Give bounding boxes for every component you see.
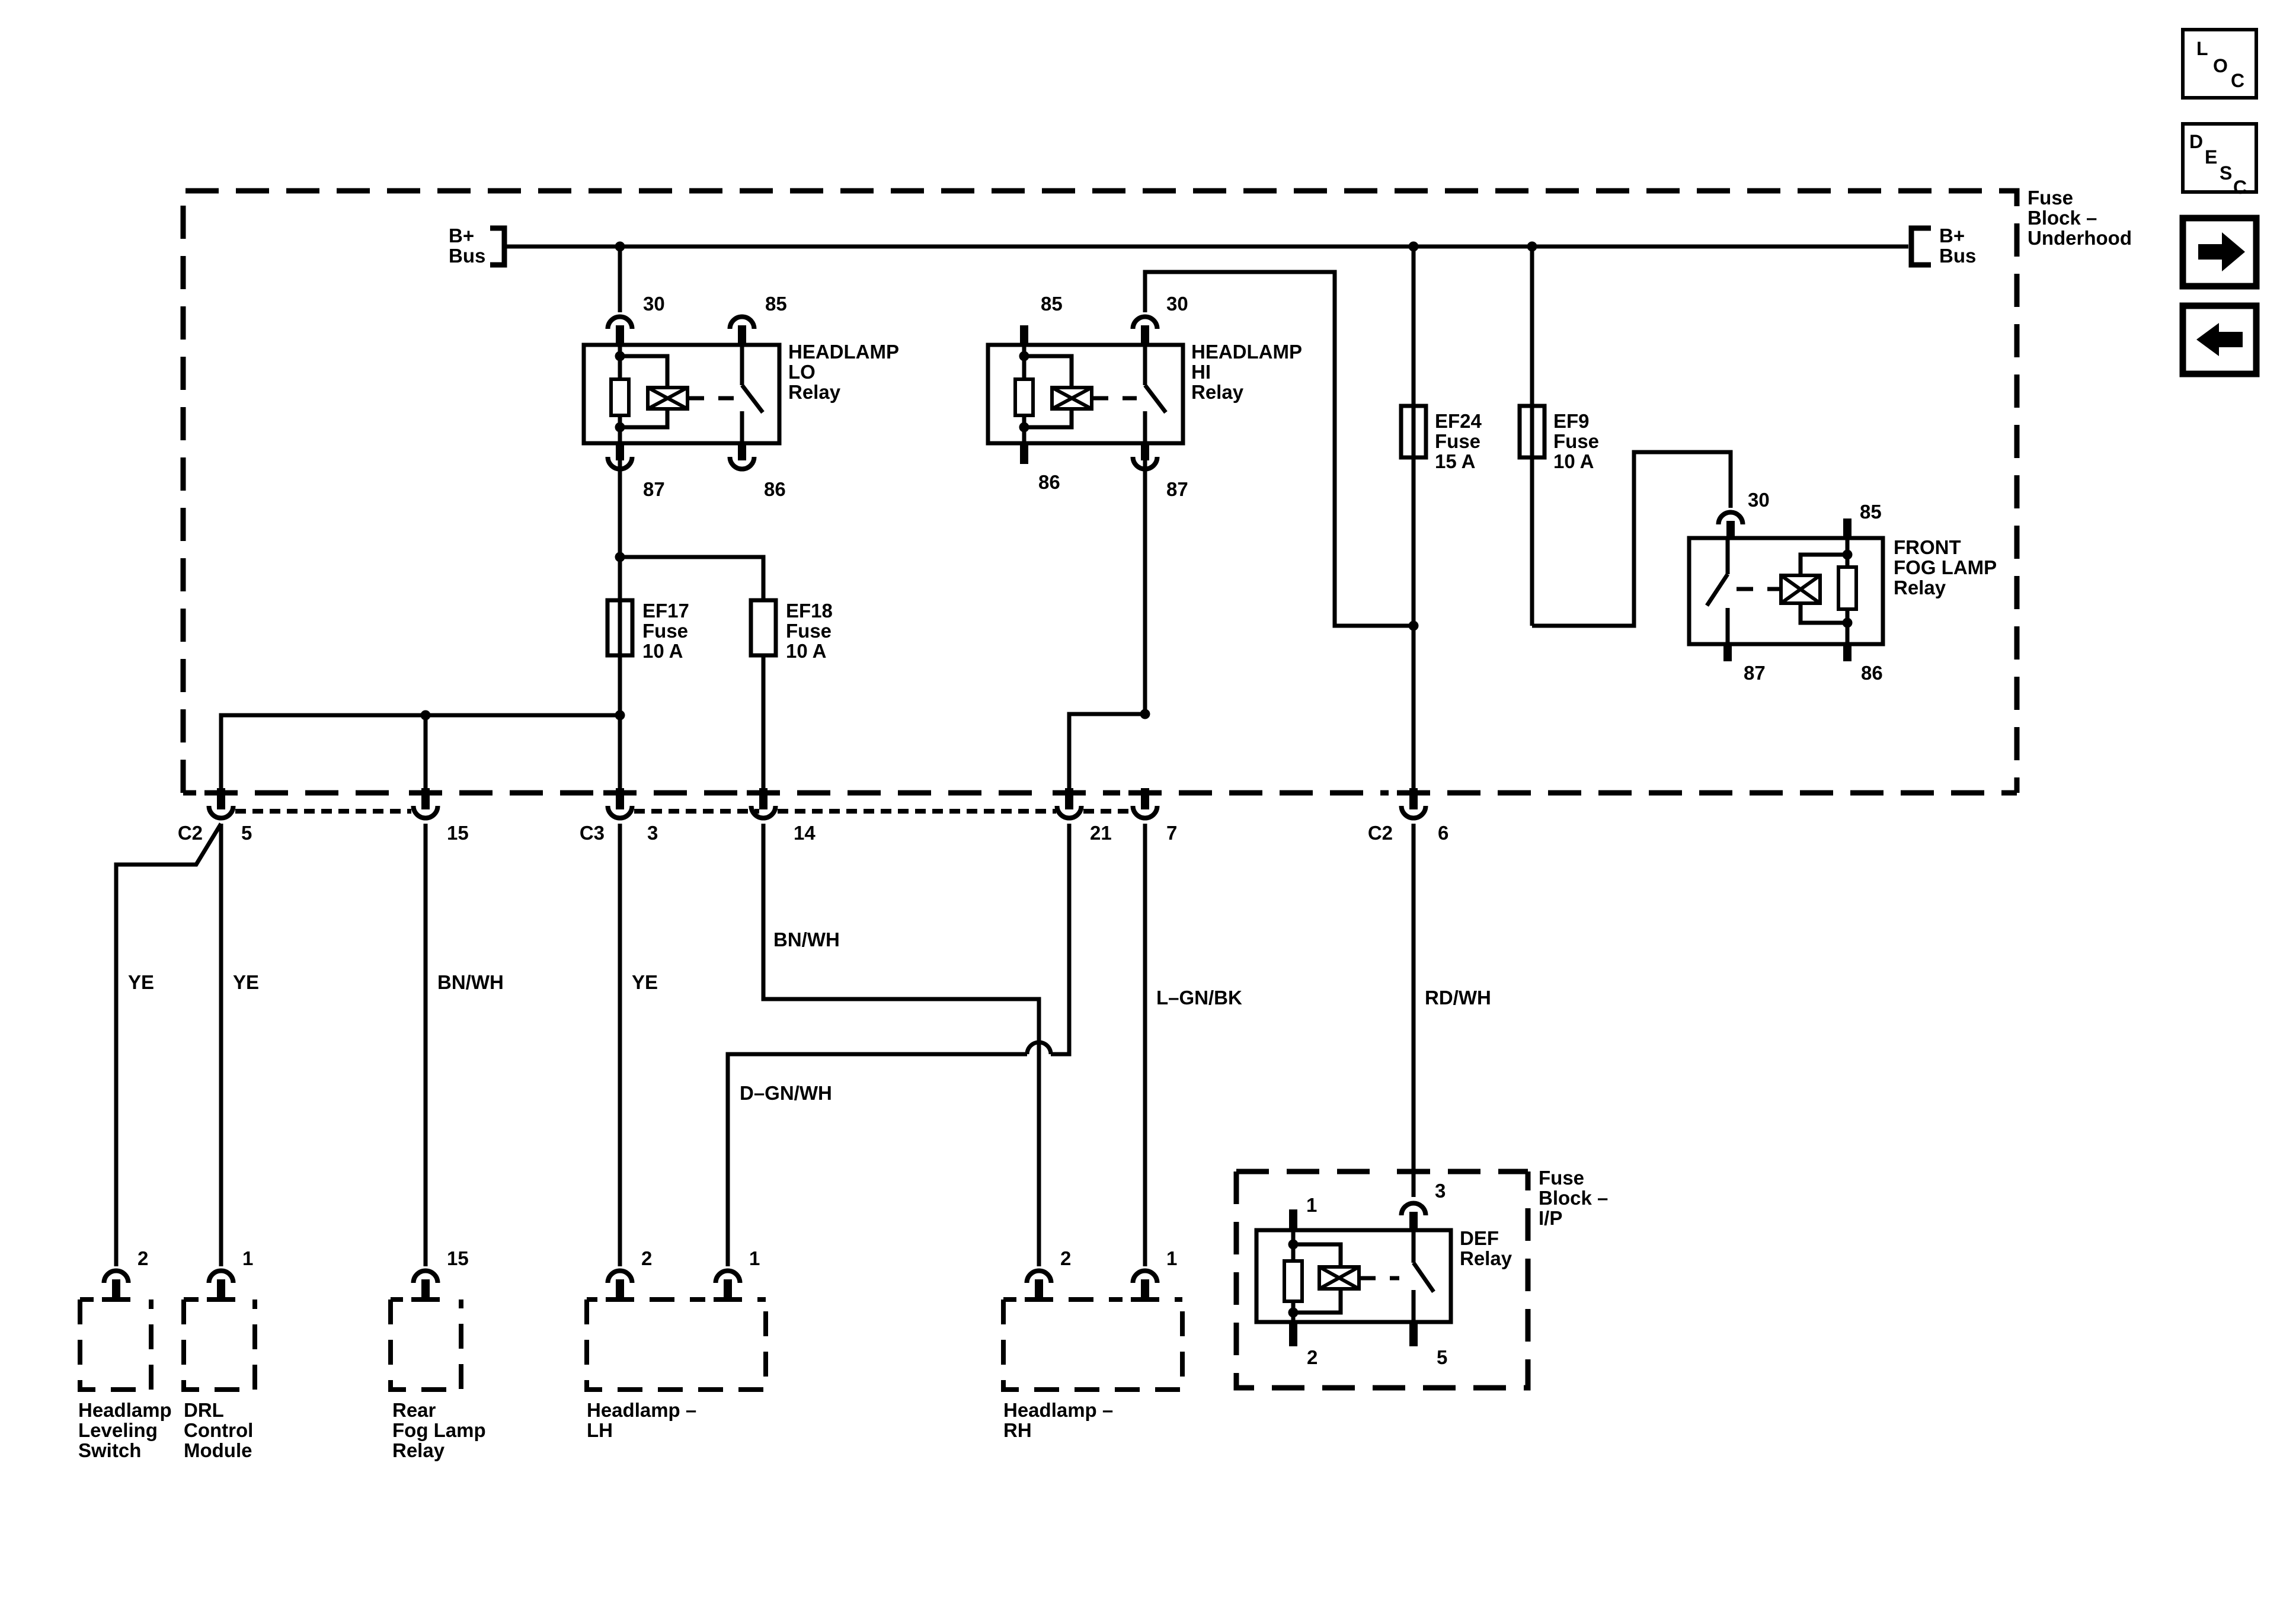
coil HI relay: [1052, 388, 1092, 409]
relay DEF box: [1256, 1230, 1451, 1322]
svg-text:Bus: Bus: [449, 245, 485, 267]
connector LO relay pin 87: [616, 443, 624, 460]
svg-text:BN/WH: BN/WH: [773, 929, 840, 950]
svg-text:85: 85: [1041, 293, 1063, 315]
svg-text:RH: RH: [1003, 1419, 1032, 1441]
wire YE to headlamp leveling switch: [116, 824, 221, 1266]
pin 86 stub HI relay: [1020, 443, 1028, 464]
connector row dotted line 1: [235, 809, 411, 814]
connector rear fog lamp relay pin 15: [414, 1270, 438, 1283]
svg-text:87: 87: [1744, 662, 1766, 684]
svg-text:FRONT: FRONT: [1894, 536, 1961, 558]
fuse EF24: [1401, 406, 1426, 457]
pin 85 stub fog relay: [1843, 518, 1851, 538]
svg-text:Headlamp –: Headlamp –: [587, 1399, 696, 1421]
node LO relay coil top: [615, 351, 625, 361]
wire manifold drop 15: [424, 715, 428, 790]
svg-text:85: 85: [1860, 501, 1882, 523]
svg-text:C3: C3: [580, 822, 605, 844]
wire L-GN/BK to headlamp RH: [1143, 824, 1147, 1266]
pin 85 stub HI relay: [1020, 325, 1028, 345]
svg-text:Rear: Rear: [392, 1399, 436, 1421]
node fog relay coil bottom: [1843, 618, 1853, 628]
wire HI relay 87 down: [1143, 460, 1147, 714]
svg-text:Leveling: Leveling: [78, 1419, 158, 1441]
fuse EF17: [607, 600, 632, 655]
svg-text:5: 5: [241, 822, 252, 844]
connector LO relay pin 86: [738, 443, 746, 460]
connector row dotted line 3: [778, 809, 1056, 814]
node LO relay coil bottom: [615, 422, 625, 433]
connector HI relay pin 30: [1133, 316, 1157, 329]
svg-text:15: 15: [447, 1247, 469, 1269]
rear fog lamp relay box: [391, 1299, 461, 1390]
svg-text:HEADLAMP: HEADLAMP: [1191, 341, 1302, 363]
node HI relay coil bottom: [1019, 422, 1029, 433]
connector headlamp RH pin 2: [1027, 1270, 1051, 1283]
connector row dotted line 4: [1083, 809, 1130, 814]
actuator dashes DEF relay: [1359, 1276, 1399, 1281]
LOC reference box: [2183, 30, 2256, 98]
svg-text:Headlamp –: Headlamp –: [1003, 1399, 1113, 1421]
node EF17 manifold: [615, 710, 625, 721]
svg-text:87: 87: [643, 478, 665, 500]
svg-text:Fuse: Fuse: [1539, 1167, 1584, 1189]
B+ bus terminal left: [490, 228, 504, 265]
svg-text:2: 2: [1307, 1346, 1318, 1368]
svg-text:10 A: 10 A: [642, 640, 683, 662]
wire LO relay coil bottom link: [620, 409, 667, 427]
svg-text:15: 15: [447, 822, 469, 844]
svg-text:Fuse: Fuse: [1553, 430, 1599, 452]
svg-text:Fuse: Fuse: [786, 620, 832, 642]
svg-text:Bus: Bus: [1939, 245, 1976, 267]
wire BN/WH to rear fog lamp relay: [424, 824, 428, 1266]
svg-text:30: 30: [643, 293, 665, 315]
wire LO relay 87 down: [618, 460, 622, 557]
wire HI relay pin85 internal: [1022, 345, 1027, 379]
wire HI relay coil top link: [1024, 356, 1072, 388]
wire fog relay resistor column: [1846, 538, 1850, 567]
pin 87 stub fog relay: [1723, 644, 1732, 661]
svg-text:2: 2: [1060, 1247, 1071, 1269]
svg-text:Headlamp: Headlamp: [78, 1399, 172, 1421]
DRL control module box: [184, 1299, 255, 1390]
actuator dashes fog relay: [1737, 587, 1781, 591]
B+ bus terminal right: [1911, 228, 1931, 265]
svg-text:21: 21: [1090, 822, 1112, 844]
svg-text:DRL: DRL: [184, 1399, 224, 1421]
wire manifold left: [221, 715, 620, 790]
wire EF17 column: [618, 557, 622, 790]
svg-text:D–GN/WH: D–GN/WH: [740, 1082, 832, 1104]
wire EF9 to fog relay pin 30: [1532, 452, 1731, 626]
svg-text:I/P: I/P: [1539, 1207, 1562, 1229]
wire split to EF18: [620, 557, 763, 600]
connector headlamp LH pin 1: [716, 1270, 740, 1283]
switch DEF relay: [1412, 1230, 1416, 1263]
svg-text:Relay: Relay: [1191, 381, 1244, 403]
wire D-GN/WH to headlamp LH: [1051, 824, 1069, 1054]
connector DEF relay pin 3: [1402, 1203, 1426, 1215]
svg-text:EF9: EF9: [1553, 410, 1590, 432]
coil fog relay: [1781, 575, 1820, 603]
svg-text:Underhood: Underhood: [2028, 227, 2132, 249]
forward arrow: [2198, 232, 2245, 271]
svg-text:Switch: Switch: [78, 1439, 141, 1461]
resistor LO relay: [611, 379, 629, 415]
wire LO relay coil top link: [620, 356, 667, 388]
svg-text:2: 2: [641, 1247, 652, 1269]
svg-text:7: 7: [1166, 822, 1177, 844]
svg-text:HI: HI: [1191, 361, 1211, 383]
svg-text:HEADLAMP: HEADLAMP: [788, 341, 899, 363]
svg-text:6: 6: [1438, 822, 1448, 844]
fuse EF18: [751, 600, 776, 655]
svg-text:30: 30: [1166, 293, 1188, 315]
back arrow: [2196, 323, 2243, 356]
connector row dotted line 2: [634, 809, 759, 814]
svg-text:C: C: [2233, 177, 2247, 198]
node EF24 junction: [1409, 621, 1419, 631]
svg-text:10 A: 10 A: [1553, 450, 1594, 472]
node EF17 EF18 split: [615, 552, 625, 562]
connector HI relay pin 87: [1141, 443, 1149, 460]
DESC reference box: [2183, 124, 2256, 192]
wire YE to DRL control module: [219, 824, 223, 1266]
svg-text:2: 2: [137, 1247, 148, 1269]
svg-text:L: L: [2196, 38, 2208, 59]
svg-text:Module: Module: [184, 1439, 252, 1461]
node pin 21 branch: [1140, 709, 1150, 719]
svg-text:B+: B+: [449, 225, 474, 247]
wire B+ bus: [507, 245, 1908, 249]
svg-text:10 A: 10 A: [786, 640, 826, 662]
wire DEF relay coil bottom link: [1293, 1289, 1341, 1313]
wire HI relay resistor bottom: [1022, 415, 1027, 443]
svg-text:87: 87: [1166, 478, 1188, 500]
svg-text:1: 1: [1166, 1247, 1177, 1269]
svg-text:B+: B+: [1939, 225, 1965, 247]
relay HEADLAMP HI box: [988, 345, 1183, 443]
fuse block underhood boundary: [183, 191, 2017, 793]
svg-text:LH: LH: [587, 1419, 613, 1441]
connector C3 pin 3 at fuse block: [616, 788, 624, 809]
pin 86 stub fog relay: [1843, 644, 1851, 661]
svg-text:30: 30: [1748, 489, 1770, 511]
connector C2 pin 5 at fuse block: [217, 788, 225, 809]
headlamp RH box: [1003, 1299, 1182, 1390]
wire RD/WH to DEF relay: [1412, 824, 1416, 1197]
svg-text:86: 86: [764, 478, 786, 500]
connector pin 14 at fuse block: [759, 788, 768, 809]
relay FRONT FOG LAMP box: [1689, 538, 1883, 644]
actuator dashes HI relay: [1092, 396, 1137, 401]
wire EF24 node to HI relay pin 30: [1145, 272, 1414, 626]
svg-text:D: D: [2189, 131, 2203, 152]
coil DEF relay: [1319, 1267, 1359, 1289]
svg-text:FOG LAMP: FOG LAMP: [1894, 556, 1997, 578]
resistor HI relay: [1015, 379, 1033, 415]
svg-text:Fuse: Fuse: [642, 620, 688, 642]
svg-text:Relay: Relay: [1460, 1247, 1512, 1269]
wire bus to LO relay pin 30: [618, 247, 622, 312]
svg-text:Block –: Block –: [2028, 207, 2097, 229]
wire branch to connector 21: [1069, 714, 1145, 790]
headlamp leveling switch box: [80, 1299, 151, 1390]
svg-text:Fog Lamp: Fog Lamp: [392, 1419, 486, 1441]
switch HI relay: [1143, 345, 1147, 385]
pin 1 stub DEF relay: [1289, 1209, 1297, 1230]
svg-text:1: 1: [1306, 1194, 1317, 1216]
svg-text:3: 3: [647, 822, 658, 844]
connector DRL control module pin 1: [209, 1270, 234, 1283]
wire EF9 column: [1530, 247, 1534, 626]
fuse EF9: [1520, 406, 1544, 457]
pin 2 stub DEF relay: [1289, 1322, 1297, 1346]
wire DEF relay pin1 internal: [1291, 1230, 1296, 1261]
wire LO relay resistor bottom: [618, 415, 622, 443]
resistor fog relay: [1838, 567, 1856, 609]
svg-text:15 A: 15 A: [1435, 450, 1475, 472]
svg-text:YE: YE: [128, 971, 154, 993]
connector pin 21 at fuse block: [1065, 788, 1073, 809]
wire DEF relay resistor bottom: [1291, 1301, 1296, 1322]
wire DEF relay coil top link: [1293, 1244, 1341, 1267]
connector fog relay pin 30: [1719, 512, 1743, 524]
svg-text:O: O: [2213, 55, 2228, 76]
connector LO relay pin 30: [608, 316, 632, 329]
wire HI relay coil bottom link: [1024, 409, 1072, 427]
svg-text:L–GN/BK: L–GN/BK: [1156, 987, 1242, 1009]
svg-text:1: 1: [242, 1247, 253, 1269]
node DEF relay coil top: [1288, 1240, 1299, 1250]
svg-text:86: 86: [1861, 662, 1883, 684]
connector headlamp leveling switch pin 2: [104, 1270, 129, 1283]
node HI relay coil top: [1019, 351, 1029, 361]
resistor DEF relay: [1284, 1261, 1302, 1301]
connector headlamp LH pin 2: [608, 1270, 632, 1283]
svg-text:Block –: Block –: [1539, 1187, 1608, 1209]
connector headlamp RH pin 1: [1133, 1270, 1157, 1283]
switch fog relay: [1726, 538, 1730, 574]
svg-text:Relay: Relay: [392, 1439, 445, 1461]
svg-text:Control: Control: [184, 1419, 253, 1441]
svg-text:E: E: [2205, 146, 2217, 168]
svg-text:BN/WH: BN/WH: [437, 971, 504, 993]
svg-text:1: 1: [749, 1247, 760, 1269]
svg-text:86: 86: [1038, 471, 1060, 493]
svg-text:Fuse: Fuse: [1435, 430, 1480, 452]
node bus to EF9: [1527, 242, 1537, 252]
svg-text:YE: YE: [632, 971, 658, 993]
connector pin 7 at fuse block: [1141, 788, 1149, 809]
node bus to headlamp LO relay: [615, 242, 625, 252]
wire BN/WH to headlamp RH: [763, 824, 1039, 1266]
switch LO relay: [740, 345, 744, 385]
svg-text:C2: C2: [1368, 822, 1393, 844]
svg-text:EF24: EF24: [1435, 410, 1482, 432]
svg-text:EF17: EF17: [642, 600, 689, 622]
coil LO relay: [648, 388, 687, 409]
node bus to EF24: [1409, 242, 1419, 252]
fuse block I/P boundary: [1236, 1172, 1528, 1388]
connector pin 15 at fuse block: [421, 788, 430, 809]
headlamp LH box: [587, 1299, 766, 1390]
svg-text:DEF: DEF: [1460, 1227, 1499, 1249]
svg-text:C: C: [2231, 70, 2244, 91]
wire YE to headlamp LH: [618, 824, 622, 1266]
svg-text:YE: YE: [233, 971, 259, 993]
wire fog relay coil top link: [1801, 555, 1847, 575]
svg-text:3: 3: [1435, 1180, 1446, 1202]
svg-text:Relay: Relay: [1894, 577, 1946, 598]
svg-text:S: S: [2220, 162, 2232, 184]
node manifold to connector 15: [421, 710, 431, 721]
svg-text:Fuse: Fuse: [2028, 187, 2073, 209]
svg-text:85: 85: [765, 293, 787, 315]
svg-text:C2: C2: [178, 822, 203, 844]
svg-text:14: 14: [794, 822, 816, 844]
connector C2 pin 6 at fuse block: [1409, 788, 1418, 809]
relay HEADLAMP LO box: [584, 345, 779, 443]
svg-text:LO: LO: [788, 361, 816, 383]
node fog relay coil top: [1843, 550, 1853, 560]
wire fog relay coil bottom link: [1801, 603, 1847, 623]
svg-text:5: 5: [1437, 1346, 1447, 1368]
wire LO relay pin30 internal: [618, 345, 622, 379]
svg-text:Relay: Relay: [788, 381, 841, 403]
node DEF relay coil bottom: [1288, 1308, 1299, 1318]
actuator dashes LO relay: [687, 396, 734, 401]
forward arrow box: [2183, 218, 2256, 286]
svg-text:RD/WH: RD/WH: [1425, 987, 1491, 1009]
svg-text:EF18: EF18: [786, 600, 833, 622]
connector LO relay pin 85: [730, 316, 754, 329]
wire EF24 column: [1412, 247, 1416, 790]
back arrow box: [2183, 306, 2256, 374]
pin 5 stub DEF relay: [1409, 1322, 1418, 1346]
wire EF18 to connector 14: [762, 655, 766, 790]
